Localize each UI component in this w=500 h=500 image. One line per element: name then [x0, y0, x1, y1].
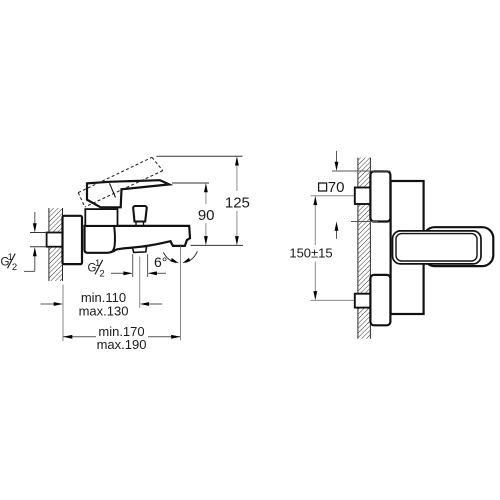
svg-text:6°: 6°: [154, 254, 167, 270]
escutcheon top extension line: [332, 170, 390, 172]
spout (plan): [424, 227, 494, 266]
svg-text:max.130: max.130: [79, 303, 129, 318]
square-70 dimension arrows: [319, 151, 345, 239]
wall (right view, hatched section): [358, 158, 371, 339]
bottom wall fitting: [355, 294, 371, 308]
grey centreline bottom connection: [311, 299, 355, 301]
escutcheon bottom extension line: [351, 221, 378, 223]
faucet body and spout (left view): [85, 226, 191, 253]
svg-text:max.190: max.190: [97, 337, 147, 352]
dimension min.170 / max.190: [63, 324, 181, 352]
bottom escutcheon (plan): [370, 275, 390, 325]
dimension 125: [225, 156, 250, 245]
svg-text:125: 125: [225, 195, 250, 212]
handle neck crease: [110, 183, 116, 197]
svg-text:2: 2: [99, 268, 104, 279]
wall (left view, hatched section): [49, 208, 63, 281]
wall face extension line: [62, 285, 64, 342]
G1/2 label for shower outlet: [88, 254, 167, 279]
dimension min.110 / max.130: [41, 290, 163, 319]
svg-text:2: 2: [12, 262, 17, 273]
spout tip centreline: [180, 247, 182, 341]
inlet pipe G1/2 in wall: [47, 233, 63, 247]
6 degree swivel arc: [154, 251, 197, 270]
lever handle (solid, horizontal position): [87, 180, 169, 207]
extension line at solid handle tip (90 top): [172, 182, 209, 184]
grey centreline top connection: [311, 195, 355, 197]
top wall fitting: [355, 188, 371, 205]
svg-text:70: 70: [328, 179, 345, 196]
cartridge block on body: [85, 209, 117, 226]
wall escutcheon flange (left view): [63, 216, 83, 264]
body (plan): [391, 181, 424, 314]
svg-text:90: 90: [198, 207, 215, 224]
handle (plan) inner: [396, 234, 477, 261]
dimension 150 +/- 15: [289, 196, 332, 301]
svg-text:1: 1: [8, 252, 13, 263]
diverter knob on spout: [133, 206, 147, 222]
body to spout divider: [111, 226, 115, 252]
handle (plan) outer: [393, 231, 482, 264]
dimension 90: [198, 183, 215, 245]
lever handle raised position (dashed): [78, 157, 163, 207]
svg-text:150±15: 150±15: [289, 245, 332, 260]
extension line at raised handle tip (125 top): [157, 155, 243, 157]
top escutcheon (plan): [370, 171, 390, 221]
G1/2 label for inlet pipe with leader: [1, 212, 47, 273]
extension line at spout outlet bottom: [191, 244, 244, 246]
shower outlet centreline: [139, 257, 141, 309]
shower outlet stub under body: [133, 247, 147, 253]
